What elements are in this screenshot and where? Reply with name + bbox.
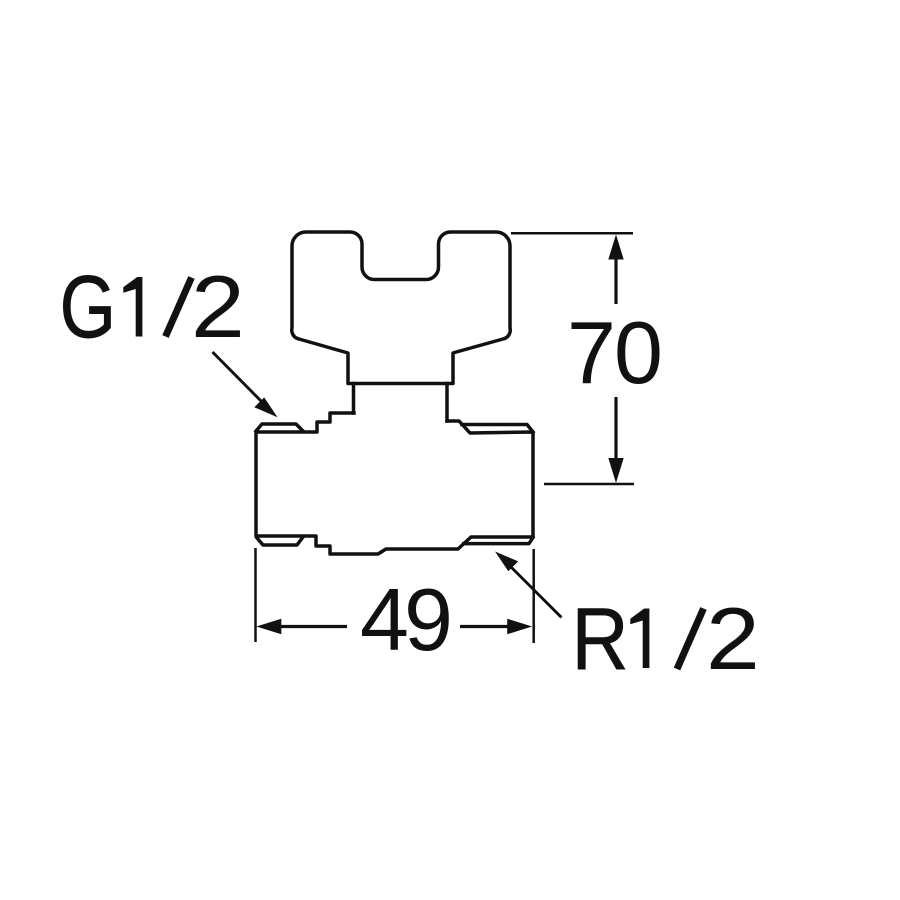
label G1/2 : slash xyxy=(166,278,192,337)
label G1/2 : 1 xyxy=(123,277,142,337)
dimension line 49 left shaft xyxy=(276,625,347,628)
right thread top crest line xyxy=(462,425,533,433)
extension line bottom (70) xyxy=(544,483,634,486)
extension line top (70) xyxy=(511,232,633,235)
extension line left (49) xyxy=(254,548,257,642)
left nut bottom chamfer face xyxy=(257,537,303,545)
svg-text:49: 49 xyxy=(360,570,449,669)
label R1/2 : 1 xyxy=(630,609,649,669)
arrowhead 70 down xyxy=(608,458,623,483)
leader line R1/2 xyxy=(506,562,562,618)
arrowhead R1/2 leader xyxy=(495,552,518,572)
right thread bottom crest line xyxy=(464,538,533,544)
stem right edge xyxy=(445,384,449,422)
handle outline xyxy=(292,232,511,384)
arrowhead G1/2 leader xyxy=(254,397,277,417)
dimension line 70 upper shaft xyxy=(614,252,617,304)
extension line right (49) xyxy=(532,549,535,643)
leader line G1/2 xyxy=(213,352,267,406)
arrowhead 49 left xyxy=(256,619,281,634)
dimension line 70 lower shaft xyxy=(614,397,617,462)
arrowhead 49 right xyxy=(507,619,532,634)
svg-text:2: 2 xyxy=(706,589,760,688)
body outline xyxy=(256,413,533,554)
stem left edge xyxy=(352,384,356,414)
left nut top chamfer face xyxy=(256,424,303,431)
dimension line 49 right shaft xyxy=(460,625,512,628)
svg-text:G: G xyxy=(60,258,116,356)
arrowhead 70 up xyxy=(608,235,623,260)
svg-text:70: 70 xyxy=(567,303,661,402)
label R1/2 : slash xyxy=(677,609,704,670)
svg-text:R: R xyxy=(572,589,629,688)
svg-text:2: 2 xyxy=(191,257,245,356)
